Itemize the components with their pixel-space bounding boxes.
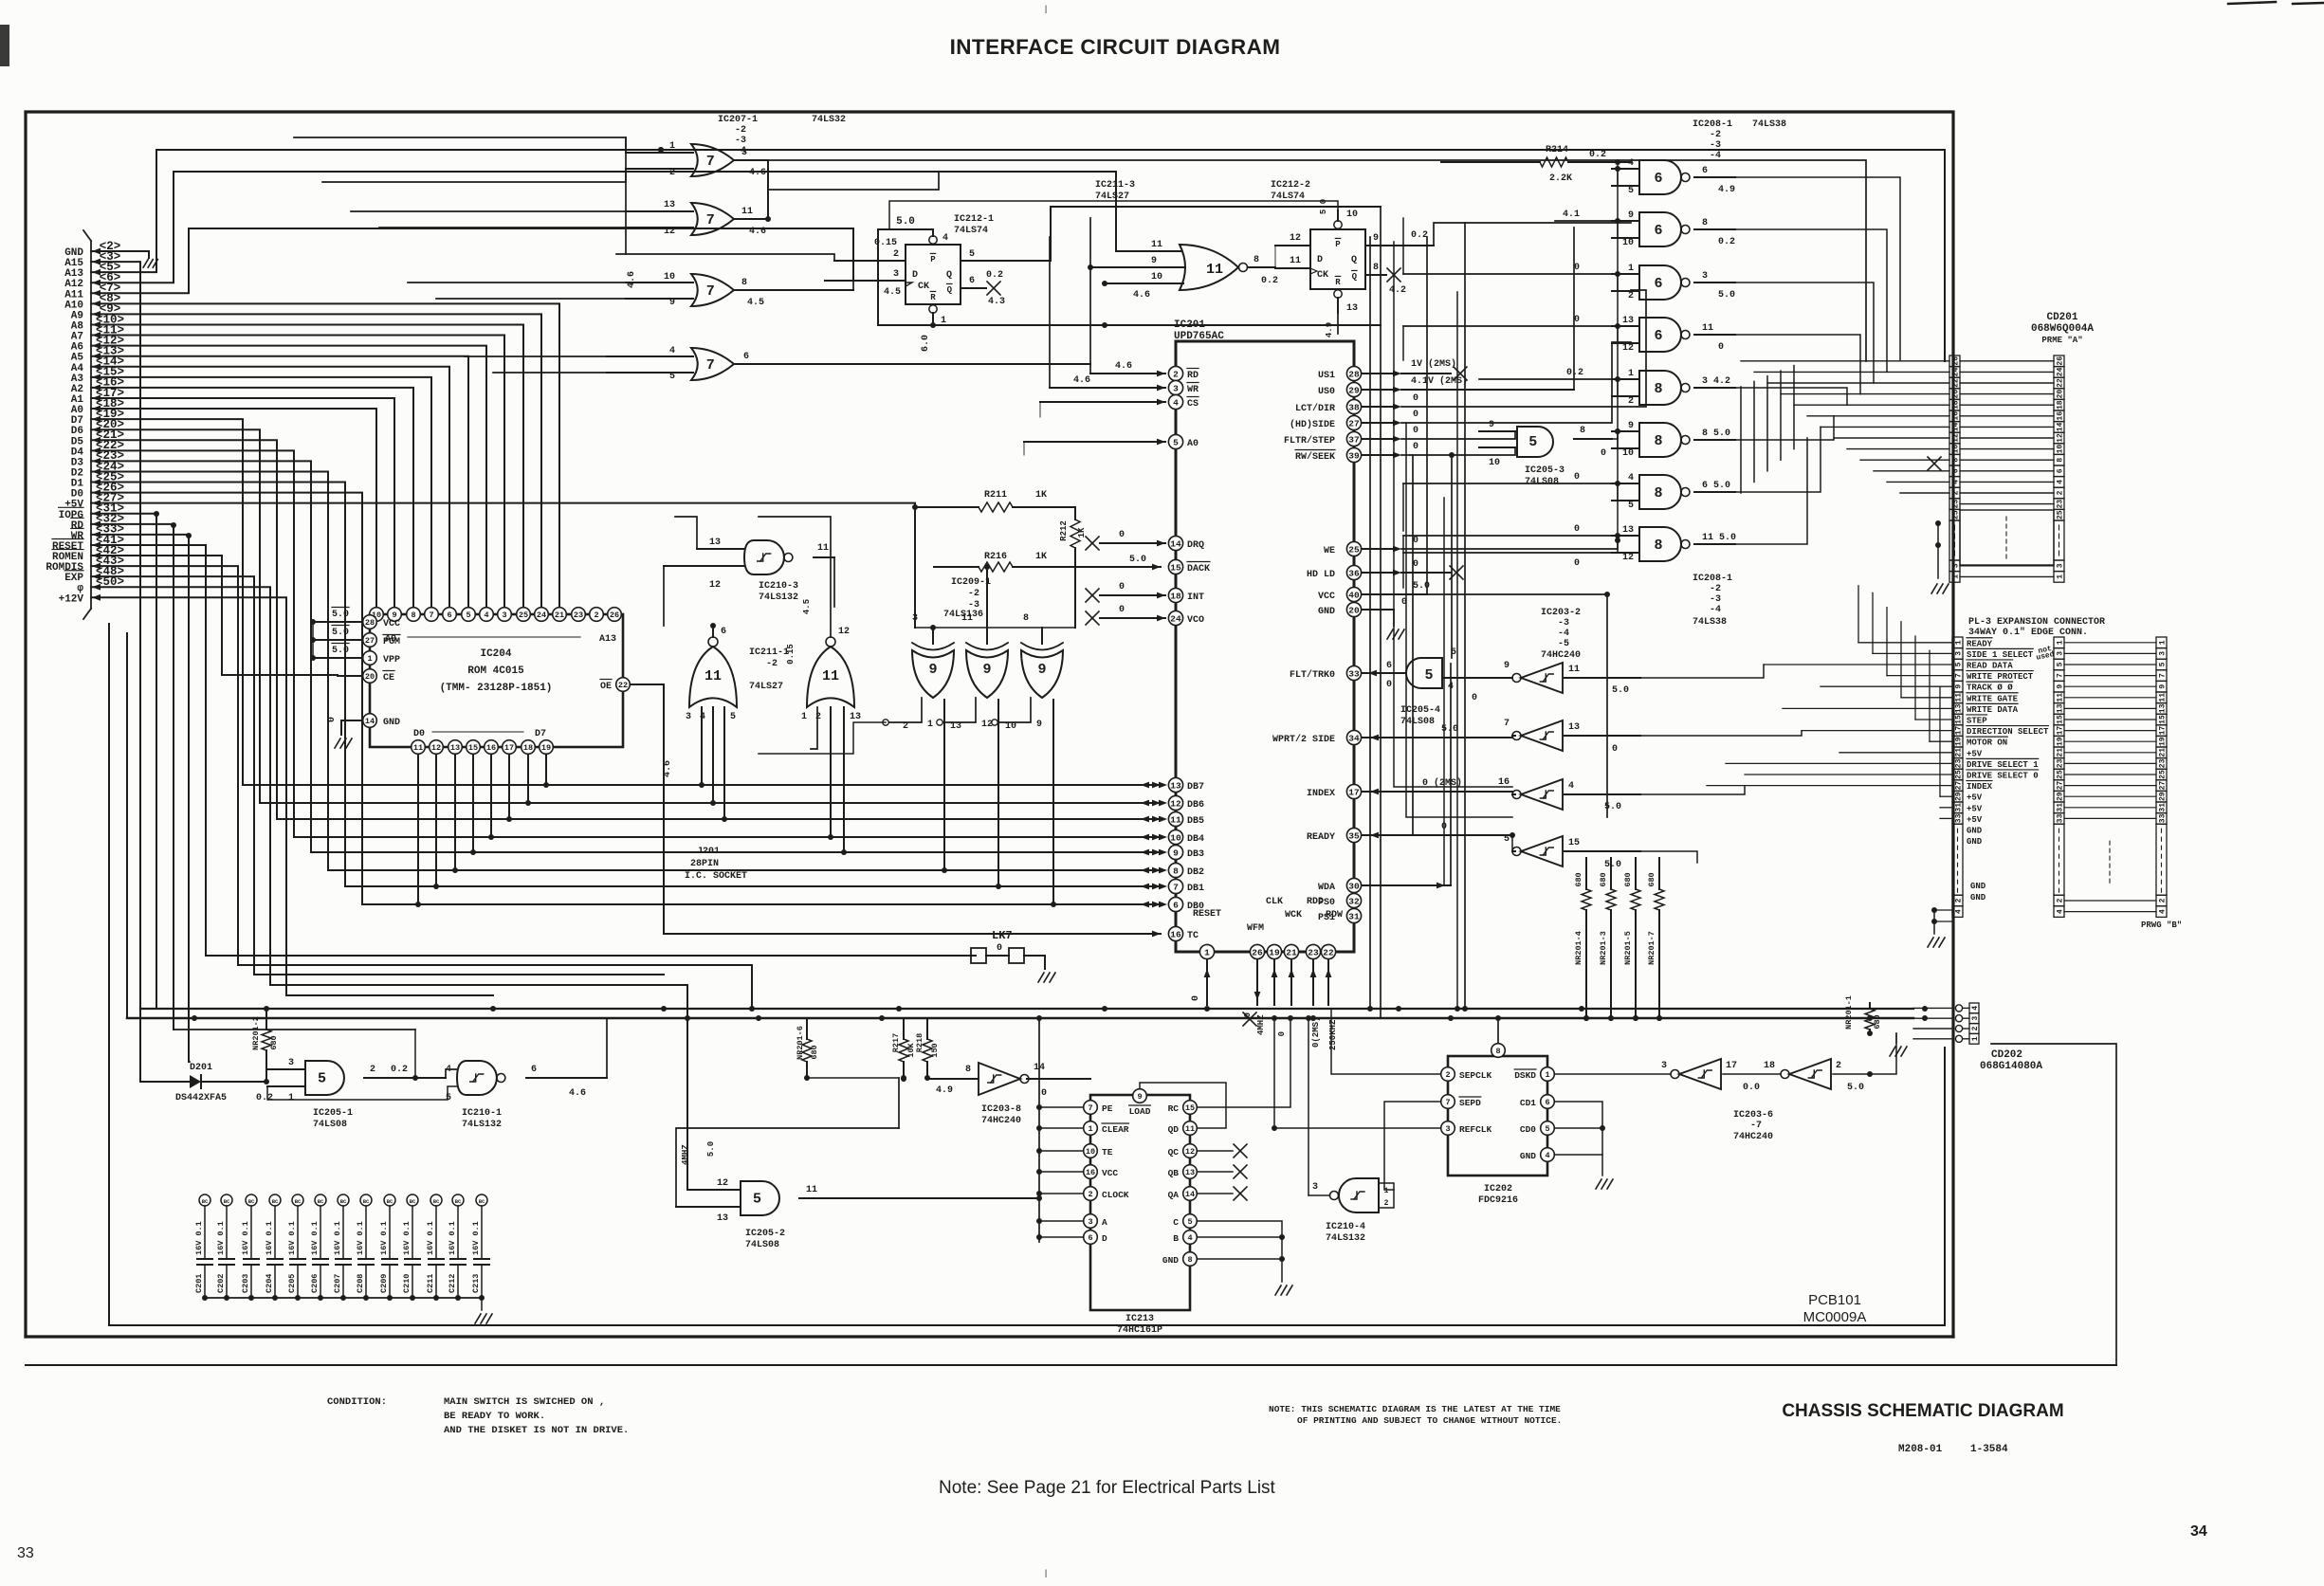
and-gate IC205-2: [741, 1181, 779, 1215]
svg-text:1: 1: [1628, 264, 1634, 274]
wire GND arrow: [92, 248, 101, 255]
svg-text:3: 3: [1952, 563, 1961, 568]
IC201 pin 9 DB3: [1168, 845, 1182, 859]
wire +5V arrow: [92, 500, 101, 506]
capacitor C208: [360, 1194, 372, 1206]
ROM pin 6 top: [443, 608, 457, 622]
and-gate IC205-3: [1517, 427, 1553, 457]
wire IC201 DRQ: [1100, 542, 1165, 544]
svg-text:A0: A0: [1187, 439, 1199, 449]
IC213 pin 13 QB: [1183, 1165, 1198, 1179]
svg-text:-3: -3: [1710, 140, 1721, 151]
svg-text:C201: C201: [194, 1274, 204, 1293]
svg-text:5.0: 5.0: [706, 1141, 716, 1157]
svg-text:23: 23: [2057, 758, 2065, 768]
ROM pin 3 top: [498, 608, 512, 622]
IC201 pin 36 HD LD: [1346, 565, 1361, 579]
svg-text:6: 6: [1654, 328, 1662, 344]
svg-text:NR201-2: NR201-2: [251, 1016, 261, 1050]
ROM pin 22 OE: [616, 678, 631, 692]
svg-text:BC: BC: [224, 1198, 230, 1205]
nor-gate IC211-1 (11) vertical: [708, 637, 718, 647]
svg-text:17: 17: [2057, 726, 2065, 736]
wire IC201 WE: [1362, 548, 1394, 550]
svg-text:34: 34: [2190, 1523, 2207, 1540]
wire A13 arrow: [92, 269, 101, 276]
svg-text:12: 12: [709, 580, 721, 591]
svg-text:5.0: 5.0: [1612, 685, 1629, 696]
ROM pin 19 bottom: [540, 740, 554, 755]
svg-text:R214: R214: [1546, 145, 1568, 155]
ROM pin 25 top: [517, 608, 531, 622]
svg-text:74LS32: 74LS32: [812, 115, 846, 125]
svg-text:7: 7: [706, 212, 715, 228]
wire IC213 QC QB QA X: [1198, 1150, 1233, 1152]
svg-text:11: 11: [741, 207, 753, 217]
svg-text:8: 8: [1495, 1047, 1500, 1056]
svg-text:PCB101: PCB101: [1808, 1292, 1861, 1308]
IC213 pin 14 QA: [1183, 1187, 1198, 1201]
svg-text:0: 0: [1612, 744, 1618, 755]
wire +12V trunk: [91, 597, 493, 995]
wire IC212-2 P: [1337, 210, 1339, 221]
svg-text:150: 150: [930, 1043, 940, 1057]
svg-text:1-3584: 1-3584: [1970, 1444, 2008, 1455]
nand-gate IC208 8: [1639, 527, 1681, 561]
svg-text:R216: R216: [984, 552, 1007, 562]
resistor R212 1K: [1074, 507, 1076, 520]
IC201 pin 6 DB0: [1168, 897, 1182, 911]
wire IC201 LCT/DIR: [1362, 406, 1394, 408]
ROM pin 17 bottom: [503, 740, 517, 755]
svg-text:5.0: 5.0: [1604, 860, 1621, 870]
IC213 pin 12 QC: [1183, 1144, 1198, 1158]
svg-text:9: 9: [1628, 421, 1634, 431]
svg-text:11: 11: [1206, 262, 1223, 278]
svg-text:SEPD: SEPD: [1459, 1098, 1481, 1108]
wire A12 arrow: [92, 280, 101, 286]
svg-text:74LS74: 74LS74: [954, 226, 988, 236]
svg-text:4.6: 4.6: [1133, 290, 1150, 301]
wire R tie line: [878, 324, 1381, 326]
svg-text:CONDITION:: CONDITION:: [327, 1396, 387, 1408]
svg-text:C213: C213: [471, 1274, 481, 1293]
svg-text:C208: C208: [356, 1274, 365, 1293]
svg-text:PGM: PGM: [383, 637, 400, 647]
svg-text:19: 19: [2057, 737, 2065, 746]
svg-text:3: 3: [1088, 1217, 1092, 1227]
nand-gate IC208 3: [1639, 265, 1681, 300]
svg-text:7: 7: [1173, 882, 1179, 892]
wire A5 to ROM pin 5: [91, 356, 468, 607]
svg-text:36: 36: [1348, 568, 1360, 578]
svg-text:0: 0: [1413, 559, 1418, 570]
svg-text:SIDE 1 SELECT: SIDE 1 SELECT: [1967, 650, 2034, 660]
wire A0 arrow: [92, 406, 101, 412]
svg-text:0: 0: [1119, 582, 1125, 592]
svg-text:5: 5: [1173, 437, 1179, 447]
svg-text:STEP: STEP: [1967, 717, 1987, 726]
svg-text:INTERFACE CIRCUIT DIAGRAM: INTERFACE CIRCUIT DIAGRAM: [950, 35, 1281, 59]
wire D2 arrow: [92, 468, 101, 475]
svg-text:22: 22: [1952, 378, 1961, 388]
svg-text:NR201-4: NR201-4: [1574, 931, 1583, 965]
svg-text:14: 14: [2057, 422, 2065, 431]
wire A7 to ROM pin 3: [91, 336, 504, 607]
svg-text:33: 33: [17, 1545, 34, 1561]
schmitt inverter IC203 c: [1521, 779, 1563, 810]
svg-text:2: 2: [2159, 898, 2168, 902]
IC213 pin 7 PE: [1084, 1101, 1098, 1115]
wire gate feeds: [294, 137, 626, 153]
svg-text:5.0: 5.0: [1129, 555, 1146, 565]
IC201 pin 40 VCC: [1346, 587, 1361, 601]
ROM pin 26 top: [608, 608, 622, 622]
wire IC213 QD loop to LOAD: [1140, 1083, 1226, 1128]
IC201 pin 30 WDA: [1346, 878, 1361, 892]
ROM pin 27 PGM: [363, 633, 377, 647]
svg-text:26: 26: [1952, 356, 1961, 366]
svg-text:-3: -3: [1558, 618, 1569, 629]
wire A9 to ROM pin 24: [91, 314, 541, 607]
svg-text:0: 0: [1574, 315, 1580, 325]
svg-text:17: 17: [1726, 1061, 1737, 1071]
svg-text:6: 6: [2057, 468, 2065, 473]
wire PHI trunk: [91, 587, 687, 1190]
svg-text:39: 39: [1348, 450, 1360, 461]
svg-text:CK: CK: [1317, 270, 1328, 281]
svg-text:3: 3: [1702, 271, 1708, 282]
svg-text:13: 13: [1170, 780, 1181, 791]
svg-text:BC: BC: [295, 1198, 302, 1205]
svg-text:4: 4: [700, 712, 705, 722]
wire CD201 lower feeds drop: [1793, 366, 1795, 449]
svg-text:4: 4: [1955, 909, 1964, 914]
wire IC201 FLTR/STEP: [1362, 438, 1394, 440]
svg-text:MOTOR ON: MOTOR ON: [1967, 738, 2007, 748]
svg-text:DB2: DB2: [1187, 867, 1204, 878]
svg-text:0: 0: [1413, 426, 1418, 436]
svg-text:29: 29: [2057, 792, 2065, 801]
svg-text:0: 0: [1574, 558, 1580, 569]
svg-text:20: 20: [365, 672, 375, 682]
svg-text:11: 11: [1185, 1124, 1195, 1134]
svg-text:5.0: 5.0: [1847, 1083, 1864, 1093]
svg-text:7: 7: [706, 154, 715, 170]
svg-text:12: 12: [1185, 1147, 1195, 1157]
svg-text:BC: BC: [340, 1198, 347, 1205]
svg-text:12: 12: [431, 743, 441, 753]
wire A15 arrow: [92, 259, 101, 265]
svg-text:1: 1: [1384, 1187, 1389, 1195]
svg-text:23: 23: [1955, 758, 1964, 768]
svg-text:9: 9: [1137, 1092, 1142, 1102]
svg-text:2.2K: 2.2K: [1549, 173, 1572, 184]
svg-text:16: 16: [486, 743, 496, 753]
wire ROMEN to ROM CE: [91, 556, 338, 675]
wire A10 arrow: [92, 301, 101, 307]
svg-text:4.9: 4.9: [1325, 322, 1334, 337]
wire D7 arrow: [92, 416, 101, 423]
svg-text:16V 0.1: 16V 0.1: [216, 1221, 226, 1255]
svg-text:16V 0.1: 16V 0.1: [194, 1221, 204, 1255]
svg-text:R211: R211: [984, 490, 1007, 501]
ground CD202: [1895, 1033, 1897, 1043]
wire bottom outer run: [26, 1364, 2116, 1366]
wire D6 arrow: [92, 427, 101, 433]
svg-text:11: 11: [822, 668, 839, 684]
svg-text:11: 11: [1170, 814, 1181, 825]
svg-text:4: 4: [2159, 909, 2168, 914]
svg-text:3: 3: [893, 269, 899, 280]
svg-text:6: 6: [1654, 171, 1662, 187]
connector PL-3 dashed box: [2109, 841, 2111, 845]
svg-text:8: 8: [1580, 426, 1585, 436]
schmitt inverter IC203 b: [1521, 720, 1563, 751]
svg-text:1K: 1K: [1035, 490, 1047, 501]
svg-text:13: 13: [1185, 1168, 1195, 1177]
svg-text:CLOCK: CLOCK: [1102, 1190, 1129, 1200]
svg-text:0: 0: [1472, 693, 1477, 703]
svg-text:0.2: 0.2: [391, 1065, 408, 1075]
resistor R216 1K: [934, 566, 979, 568]
wire channel v7: [1394, 242, 1512, 787]
svg-text:8: 8: [1253, 255, 1259, 265]
IC201 pin 23 RDD: [1306, 944, 1320, 958]
connector PL-3 right strip: [2156, 637, 2167, 648]
svg-text:3: 3: [1955, 651, 1964, 656]
svg-text:21: 21: [1286, 947, 1297, 957]
svg-text:5.0: 5.0: [1718, 290, 1735, 301]
wire ROMEN arrow: [92, 553, 101, 559]
ROM IC204 body: [370, 614, 623, 747]
svg-text:C205: C205: [287, 1274, 297, 1293]
svg-text:4: 4: [484, 611, 488, 620]
svg-text:+5V: +5V: [1967, 793, 1983, 803]
svg-text:27: 27: [2159, 781, 2168, 791]
svg-text:0.2: 0.2: [256, 1093, 273, 1103]
svg-text:READY: READY: [1967, 639, 1993, 648]
svg-text:IC205-3: IC205-3: [1525, 465, 1565, 476]
svg-text:74LS132: 74LS132: [1326, 1233, 1365, 1244]
IC202 pin 6 CD1: [1541, 1095, 1555, 1109]
svg-text:8: 8: [1654, 538, 1662, 554]
wire A10 to ROM pin 21: [91, 303, 559, 607]
svg-text:0: 0: [1277, 1031, 1287, 1036]
svg-text:31: 31: [1955, 803, 1964, 812]
svg-text:37: 37: [1348, 434, 1360, 445]
capacitor bank bottom rail: [205, 1297, 482, 1299]
svg-text:20: 20: [1952, 390, 1961, 399]
svg-text:NR201-3: NR201-3: [1599, 931, 1608, 965]
svg-text:9: 9: [1036, 720, 1042, 730]
wire D5 bus: [91, 440, 1161, 819]
svg-text:9: 9: [2057, 684, 2065, 689]
svg-text:4.6: 4.6: [1073, 375, 1090, 386]
svg-text:8: 8: [1187, 1255, 1192, 1265]
or-gate IC207-2: [691, 203, 734, 235]
nand-gate IC208 4: [1639, 318, 1681, 352]
svg-text:2: 2: [1955, 898, 1964, 902]
connector CD201 right strip: [2054, 355, 2064, 367]
svg-text:1: 1: [2057, 574, 2065, 579]
wire mid feeds down from WE rail: [1617, 162, 1619, 540]
svg-text:29: 29: [2159, 792, 2168, 801]
scan smudge top left: [0, 25, 9, 66]
svg-text:13: 13: [1622, 316, 1634, 326]
svg-text:4: 4: [1952, 480, 1961, 484]
svg-text:Q: Q: [946, 270, 952, 281]
svg-text:3: 3: [686, 712, 691, 722]
scan dashes top right: [2228, 2, 2276, 4]
svg-text:NR201-1: NR201-1: [1844, 995, 1854, 1030]
svg-text:15: 15: [468, 743, 478, 753]
wire +12V arrow: [92, 594, 101, 601]
svg-text:4: 4: [1173, 397, 1179, 408]
svg-text:5: 5: [730, 712, 736, 722]
svg-text:IC208-1: IC208-1: [1693, 574, 1732, 584]
svg-text:11: 11: [806, 1185, 817, 1195]
svg-text:5.0: 5.0: [332, 646, 349, 656]
svg-text:WRITE GATE: WRITE GATE: [1967, 694, 2019, 703]
svg-text:TRACK Ø Ø: TRACK Ø Ø: [1967, 684, 2013, 693]
svg-text:3: 3: [1971, 1016, 1980, 1021]
svg-text:13: 13: [450, 743, 460, 753]
wire IC212-2 CK: [1275, 267, 1310, 269]
svg-text:HD LD: HD LD: [1307, 570, 1335, 580]
svg-text:+5V: +5V: [1967, 804, 1983, 813]
svg-text:0(2MS): 0(2MS): [1311, 1017, 1321, 1048]
IC201 pin 17 INDEX: [1346, 784, 1361, 798]
svg-text:0: 0: [1386, 680, 1392, 690]
svg-text:IC209-1: IC209-1: [951, 577, 991, 588]
svg-text:25: 25: [519, 611, 528, 620]
svg-text:16V 0.1: 16V 0.1: [310, 1221, 320, 1255]
svg-text:6: 6: [1386, 661, 1392, 671]
svg-text:14: 14: [1170, 538, 1181, 549]
wire IC201 VCO: [1100, 617, 1165, 619]
svg-text:11: 11: [2159, 693, 2168, 702]
svg-text:27: 27: [1955, 781, 1964, 791]
wire A7 arrow: [92, 332, 101, 338]
capacitor C201: [199, 1194, 210, 1206]
svg-text:12: 12: [1622, 553, 1634, 563]
svg-text:31: 31: [1348, 911, 1360, 921]
wire D7 bus: [91, 419, 1161, 785]
svg-text:Q: Q: [1351, 255, 1357, 265]
svg-text:10: 10: [1489, 458, 1500, 468]
svg-text:8: 8: [1952, 458, 1961, 463]
svg-text:250KHZ: 250KHZ: [1328, 1020, 1338, 1050]
svg-text:BC: BC: [248, 1198, 255, 1205]
svg-text:+5V: +5V: [1967, 815, 1983, 825]
svg-text:2: 2: [1445, 1070, 1450, 1080]
IC201 pin 5 A0: [1168, 434, 1182, 448]
svg-text:1K: 1K: [1035, 552, 1047, 562]
svg-text:IC208-1: IC208-1: [1693, 119, 1732, 130]
svg-text:1: 1: [1088, 1124, 1092, 1134]
svg-text:M208-01: M208-01: [1898, 1444, 1943, 1455]
svg-text:18: 18: [1952, 400, 1961, 410]
svg-text:1: 1: [1545, 1070, 1549, 1080]
svg-text:10: 10: [1952, 445, 1961, 454]
wire XOR supply drops: [914, 507, 916, 628]
wire IC212-1 D input: [834, 260, 906, 262]
svg-text:CD202: CD202: [1991, 1049, 2022, 1061]
flip-flop IC212-1: [906, 245, 961, 304]
svg-text:13: 13: [2159, 703, 2168, 713]
svg-text:680: 680: [1873, 1014, 1882, 1029]
svg-text:9: 9: [1373, 233, 1379, 244]
svg-text:4.5: 4.5: [884, 287, 901, 298]
svg-text:5: 5: [1424, 667, 1433, 684]
svg-text:14: 14: [365, 717, 375, 726]
wire IOPG arrow: [92, 510, 101, 517]
wire D6 bus: [91, 429, 1161, 803]
svg-text:16: 16: [1086, 1168, 1095, 1177]
ROM pin 14 GND: [363, 714, 377, 728]
svg-text:11: 11: [1290, 256, 1301, 266]
wire RD arrow: [92, 520, 101, 527]
IC201 pin 25 WE: [1346, 541, 1361, 556]
svg-text:0.2: 0.2: [1566, 368, 1583, 378]
svg-text:0.2: 0.2: [1589, 150, 1606, 160]
wire EXP arrow: [92, 574, 101, 580]
wire IC212-1 R pin: [932, 313, 934, 325]
svg-text:NR201-7: NR201-7: [1647, 931, 1656, 965]
svg-text:25: 25: [2159, 770, 2168, 779]
svg-text:7: 7: [1445, 1098, 1450, 1107]
wire IC212-2 D: [1275, 245, 1310, 246]
svg-text:P: P: [1335, 240, 1341, 249]
svg-text:IC207-1: IC207-1: [718, 115, 758, 125]
svg-text:5: 5: [1528, 434, 1537, 450]
svg-text:38: 38: [1348, 402, 1360, 412]
svg-text:US1: US1: [1318, 371, 1335, 381]
svg-text:14: 14: [1185, 1190, 1195, 1199]
svg-text:13: 13: [950, 721, 961, 732]
wire IC201 WDA: [1362, 884, 1451, 886]
svg-text:-2: -2: [766, 659, 778, 669]
wire IC212-2 Q: [1365, 245, 1434, 246]
svg-text:3: 3: [288, 1058, 294, 1068]
svg-text:16V 0.1: 16V 0.1: [333, 1221, 342, 1255]
svg-text:INDEX: INDEX: [1967, 782, 1993, 792]
wire WR arrow: [92, 531, 101, 538]
IC201 pin 13 DB7: [1168, 777, 1182, 792]
ground PL-3: [1933, 910, 1935, 934]
svg-text:6: 6: [1654, 223, 1662, 239]
svg-text:18: 18: [1764, 1061, 1775, 1071]
svg-text:1: 1: [1952, 574, 1961, 579]
wire RESET trunk: [91, 545, 976, 956]
svg-text:74HC240: 74HC240: [1733, 1132, 1773, 1142]
svg-text:8: 8: [741, 278, 747, 288]
svg-text:C202: C202: [216, 1274, 226, 1293]
svg-text:3: 3: [1661, 1061, 1667, 1071]
svg-text:IC205-1: IC205-1: [313, 1108, 353, 1119]
svg-text:0.15: 0.15: [874, 238, 897, 248]
IC201 pin 8 DB2: [1168, 863, 1182, 877]
svg-text:CK: CK: [918, 282, 929, 292]
svg-text:5: 5: [1628, 186, 1634, 196]
svg-text:40: 40: [1348, 590, 1360, 600]
IC201 pin 28 US1: [1346, 366, 1361, 380]
wire A3 arrow: [92, 374, 101, 380]
nor-gate IC211-3: [1180, 245, 1238, 290]
svg-text:IC213: IC213: [1125, 1314, 1154, 1324]
svg-text:D0: D0: [413, 729, 425, 739]
